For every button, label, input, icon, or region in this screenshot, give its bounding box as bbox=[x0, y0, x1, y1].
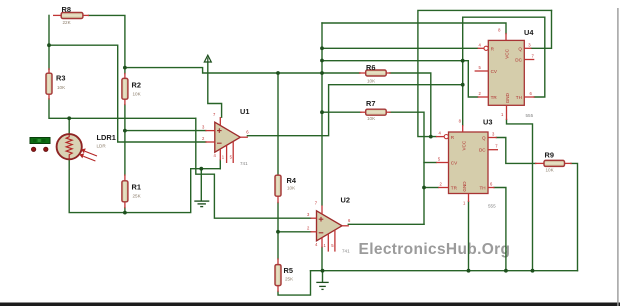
resistor R5 bbox=[275, 265, 281, 286]
LDR1 light control box bbox=[30, 138, 50, 144]
node U3 TH rail bbox=[504, 269, 508, 273]
wire R2-bottom to U1 plus junction to R1 bbox=[124, 105, 126, 131]
svg-text:LDR: LDR bbox=[97, 144, 107, 149]
svg-text:R9: R9 bbox=[545, 151, 554, 160]
node R4/R5 to U2 minus bbox=[276, 230, 280, 234]
wire ground1 stem bbox=[200, 169, 202, 201]
resistor R7 leads bbox=[360, 111, 391, 113]
svg-text:10K: 10K bbox=[133, 92, 142, 97]
wire LDR-top stub bbox=[68, 118, 70, 134]
node Va trigger rail bbox=[320, 59, 324, 63]
svg-text:GND: GND bbox=[505, 92, 510, 103]
resistor R9 leads bbox=[535, 162, 572, 164]
svg-text:DC: DC bbox=[479, 148, 486, 153]
wire R9-right down to bottom rail bbox=[571, 163, 578, 270]
power arrow VCC bbox=[204, 55, 211, 62]
wire U4-Q rail to U3 reset bbox=[418, 10, 552, 136]
wire LDR-bottom rail y=212.6 bbox=[69, 160, 191, 213]
svg-text:TH: TH bbox=[516, 95, 522, 100]
svg-text:VCC: VCC bbox=[504, 48, 509, 58]
svg-text:22K: 22K bbox=[63, 20, 72, 25]
node VCC at R4 bbox=[276, 71, 280, 75]
wire VCC rail y=68 step to y=73 bbox=[125, 68, 360, 73]
svg-text:TR: TR bbox=[451, 186, 458, 191]
wire R1-bottom to ground rail bbox=[124, 208, 126, 213]
svg-text:DC: DC bbox=[515, 58, 522, 63]
wire R4 column from VCC rail bbox=[277, 73, 279, 175]
svg-text:741: 741 bbox=[342, 249, 350, 254]
svg-text:R2: R2 bbox=[132, 81, 141, 90]
wire junction down to R5-top bbox=[277, 232, 279, 259]
resistor R3 bbox=[46, 73, 52, 94]
bottom border bbox=[0, 303, 620, 306]
wire R8-right to R2-top junction bbox=[89, 15, 125, 67]
LDR1 bbox=[57, 134, 82, 159]
node VCC at Va bbox=[320, 71, 324, 75]
svg-text:10K: 10K bbox=[287, 185, 296, 190]
svg-text:U4: U4 bbox=[524, 28, 534, 37]
wire R4-bottom to junction bbox=[277, 203, 279, 232]
svg-text:U2: U2 bbox=[341, 196, 350, 205]
node LDR top bbox=[67, 116, 71, 120]
wire U1 plus input from junction bbox=[125, 130, 206, 132]
op-amp U1 bbox=[202, 112, 249, 163]
wire bottom ground rail y=270.7 bbox=[311, 270, 578, 272]
node U4 GND rail bbox=[531, 269, 535, 273]
wire LDR net down to U2 plus input y=218.2 bbox=[196, 118, 311, 218]
wire VCC arrow stub and U1 V+ supply drop bbox=[208, 62, 222, 117]
svg-text:CV: CV bbox=[491, 69, 498, 74]
resistor R8 bbox=[61, 13, 83, 19]
timer U3 bbox=[436, 119, 498, 206]
resistor R4 bbox=[275, 175, 281, 196]
resistor R2 leads bbox=[124, 73, 126, 105]
op-amp U2 bbox=[307, 200, 351, 251]
node R6 / U3 reset bbox=[429, 135, 433, 139]
wire U4 GND down to bottom rail bbox=[507, 120, 533, 271]
node ground1 tap bbox=[199, 167, 203, 171]
svg-text:R3: R3 bbox=[56, 74, 65, 83]
wire junction to U2 inverting input bbox=[278, 231, 311, 233]
wire U4-TH rail and U3 VCC column bbox=[463, 17, 545, 125]
wire U3 GND down to bottom rail bbox=[468, 202, 470, 271]
node R1 bottom bbox=[123, 211, 127, 215]
resistor R5 leads bbox=[277, 258, 279, 292]
wire U3-TH down to bottom rail bbox=[494, 188, 506, 271]
wire junction down to R1-top bbox=[124, 131, 126, 175]
wire R5-bottom to bottom ground rail bbox=[278, 271, 311, 295]
node TH rail / trigger rail bbox=[461, 59, 465, 63]
svg-text:25K: 25K bbox=[133, 194, 142, 199]
svg-text:741: 741 bbox=[240, 161, 248, 166]
ground 1 (U1 area) bbox=[194, 201, 209, 207]
wire U4 VCC rail y=22.5 bbox=[322, 23, 506, 34]
wire U3-Q to R9-left bbox=[496, 138, 535, 164]
svg-text:10K: 10K bbox=[367, 79, 376, 84]
svg-text:R7: R7 bbox=[366, 99, 375, 108]
ground 2 (U2 area) bbox=[316, 282, 328, 289]
wire U2 V- down to ground rail bbox=[321, 247, 323, 270]
svg-text:10K: 10K bbox=[57, 85, 66, 90]
right border bbox=[617, 8, 618, 306]
wire U1 V- stub green bbox=[219, 160, 221, 169]
svg-text:VCC: VCC bbox=[461, 140, 466, 150]
wire R3-bottom to LDR-top rail y=118.3 bbox=[49, 99, 196, 119]
wire R2 junction down to R2 body bbox=[124, 68, 126, 74]
LDR1 light arrows bbox=[80, 149, 97, 161]
wire U4 trigger rail y=60.5 bbox=[322, 61, 478, 97]
wire ground2 stem bbox=[322, 271, 324, 282]
wire R7 rail y=112.2 bbox=[322, 111, 361, 113]
resistor R3 leads bbox=[48, 68, 50, 99]
svg-text:U1: U1 bbox=[240, 107, 249, 116]
svg-text:R5: R5 bbox=[284, 266, 293, 275]
node R8/R3/A bbox=[47, 43, 51, 47]
resistor R6 leads bbox=[359, 72, 391, 74]
svg-text:U3: U3 bbox=[483, 118, 492, 127]
node U3 VCC tap bbox=[461, 83, 465, 87]
wire U2 output bbox=[348, 223, 424, 225]
LDR1 brightness buttons bbox=[31, 147, 48, 151]
wire U1 output rail to node bbox=[247, 85, 462, 136]
node R2/R1 divider bbox=[123, 129, 127, 133]
resistor R6 bbox=[366, 70, 387, 76]
svg-text:R8: R8 bbox=[62, 5, 71, 14]
resistor R1 bbox=[122, 181, 128, 202]
wire node A horizontal y=45.2 to U1 inverting input bbox=[49, 45, 206, 142]
wire R6-right to U3 reset bbox=[390, 73, 431, 137]
svg-text:LDR1: LDR1 bbox=[97, 133, 116, 142]
timer U4 bbox=[475, 28, 535, 121]
wire U4-Q pin to rail bbox=[531, 10, 552, 48]
wire R8-left / R3-top column x=49 bbox=[48, 15, 50, 69]
svg-text:R1: R1 bbox=[132, 183, 141, 192]
wire branch to U3 CV bbox=[424, 162, 436, 164]
wire branch to U3 TR bbox=[424, 187, 438, 189]
svg-text:10K: 10K bbox=[546, 168, 555, 173]
wire R7-right down to U2 output node bbox=[390, 112, 424, 224]
wire U1 ground horizontal y=168.7 bbox=[191, 168, 221, 170]
svg-text:R6: R6 bbox=[366, 63, 375, 72]
svg-text:GND: GND bbox=[462, 181, 467, 192]
svg-text:TH: TH bbox=[479, 186, 485, 191]
svg-text:ElectronicsHub.Org: ElectronicsHub.Org bbox=[359, 241, 511, 258]
wire U2 V+ column V_a x=322 bbox=[321, 23, 323, 205]
node ground2 tap bbox=[321, 269, 325, 273]
node Va reset rail bbox=[320, 46, 324, 50]
resistor R4 leads bbox=[277, 174, 279, 203]
resistor R8 leads bbox=[53, 14, 89, 16]
node R2 top VCC bbox=[123, 66, 127, 70]
svg-text:Q: Q bbox=[518, 46, 522, 51]
resistor R9 bbox=[544, 160, 565, 166]
svg-text:555: 555 bbox=[526, 113, 534, 118]
svg-text:Q: Q bbox=[482, 136, 486, 141]
svg-text:R4: R4 bbox=[287, 176, 297, 185]
svg-text:25K: 25K bbox=[285, 277, 294, 282]
wire U4 reset rail y=48.3 bbox=[322, 47, 478, 49]
node Va R7 rail bbox=[320, 110, 324, 114]
node U3 GND rail bbox=[467, 269, 471, 273]
svg-text:TR: TR bbox=[491, 95, 498, 100]
resistor R2 bbox=[122, 78, 128, 99]
resistor R1 leads bbox=[124, 174, 126, 208]
resistor R7 bbox=[366, 109, 387, 115]
svg-text:CV: CV bbox=[451, 161, 458, 166]
svg-text:10K: 10K bbox=[367, 116, 376, 121]
node U2 out / U3 TR bbox=[422, 186, 426, 190]
svg-text:555: 555 bbox=[488, 204, 496, 209]
